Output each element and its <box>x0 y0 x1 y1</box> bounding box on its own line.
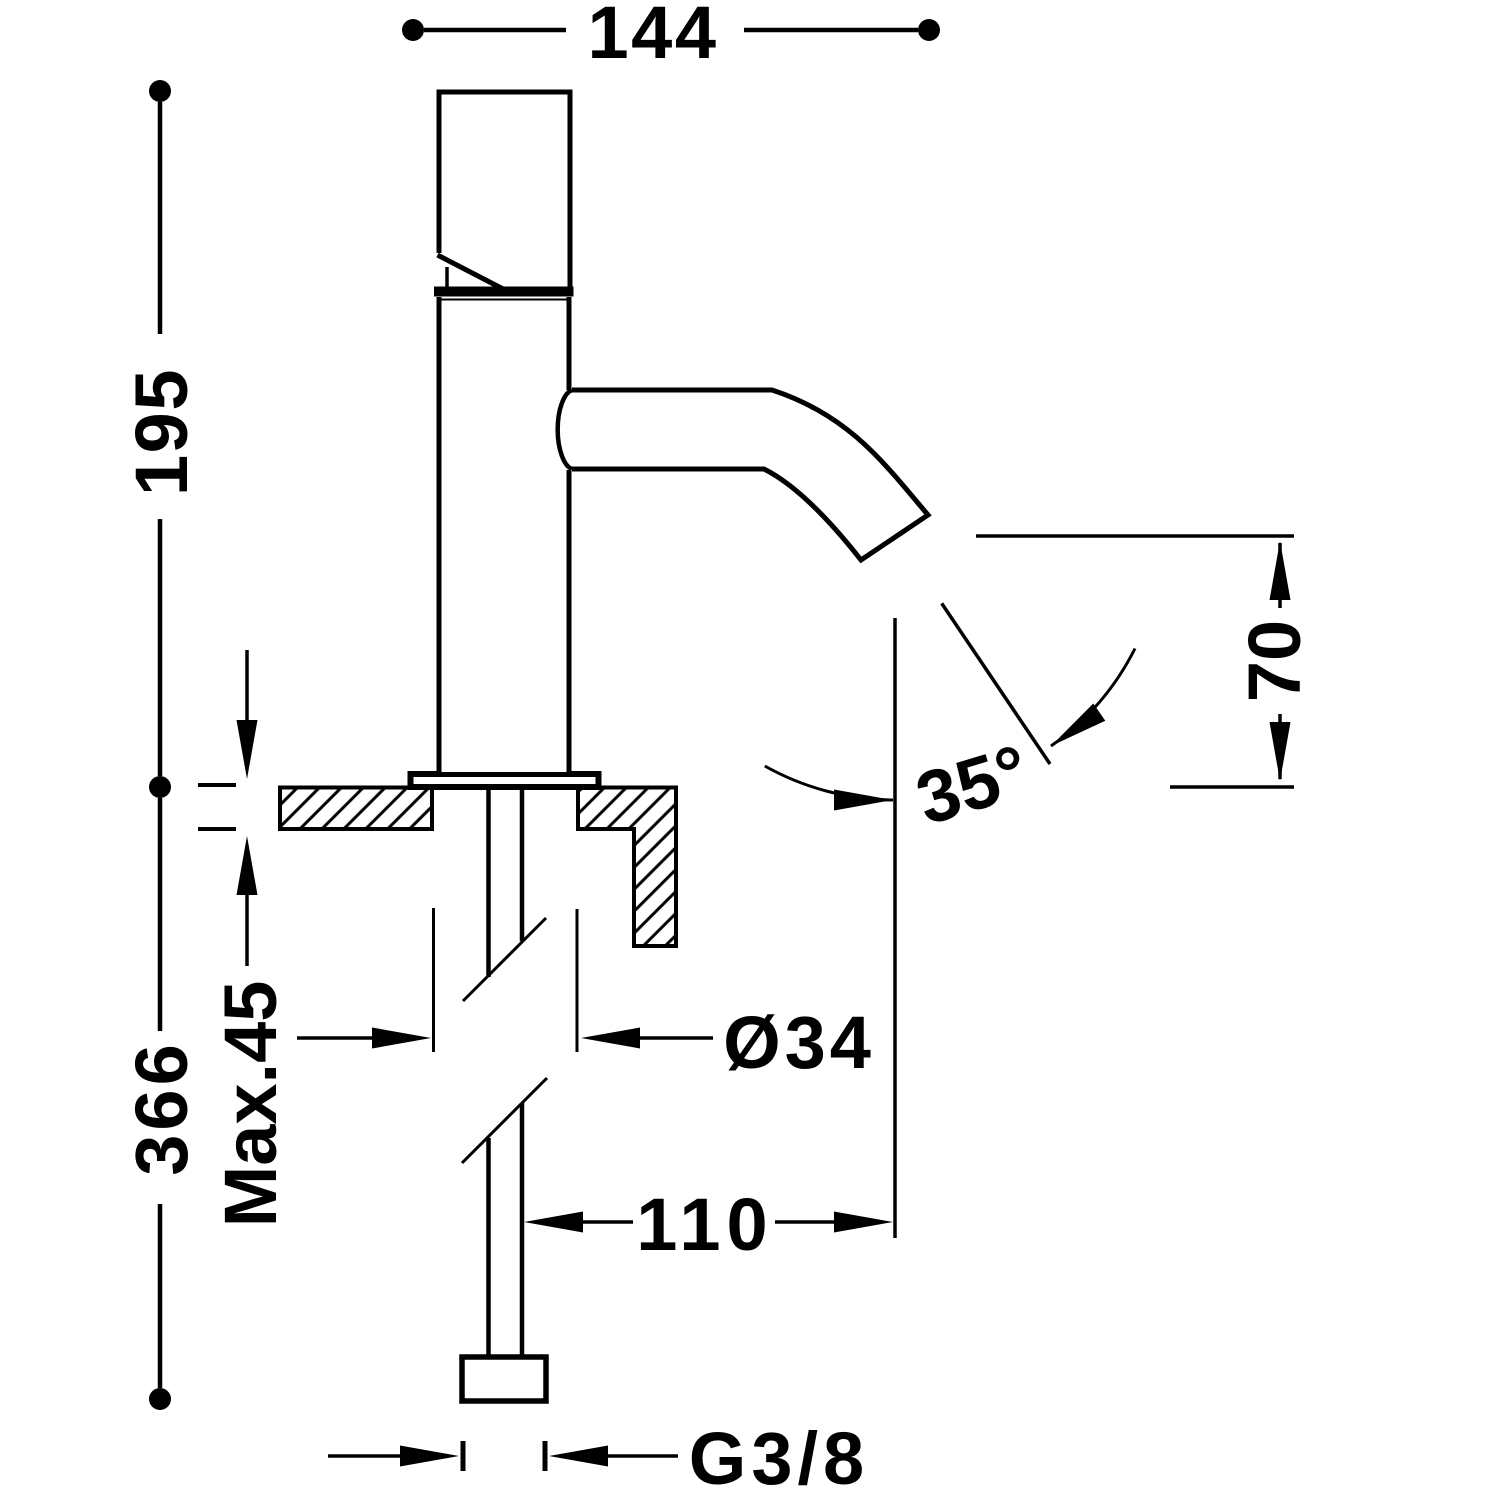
svg-text:195: 195 <box>120 368 203 496</box>
dimension G3/8 <box>328 1417 869 1500</box>
dimension Max.45 <box>198 650 292 1227</box>
faucet body <box>439 94 569 772</box>
svg-text:110: 110 <box>636 1183 773 1266</box>
angle arc left with arrow <box>765 766 893 811</box>
countertop right slab <box>578 788 676 947</box>
pipe break slash upper <box>463 918 546 1001</box>
svg-text:70: 70 <box>1233 620 1316 702</box>
svg-text:366: 366 <box>120 1040 203 1175</box>
svg-text:Ø34: Ø34 <box>723 1001 875 1084</box>
svg-text:144: 144 <box>588 0 719 74</box>
water stream vertical reference <box>893 618 897 1238</box>
mounting flange <box>411 774 599 787</box>
connection nut <box>462 1357 546 1401</box>
faucet handle <box>434 92 574 300</box>
svg-text:Max.45: Max.45 <box>209 981 292 1228</box>
outlet height reference line lower <box>1170 785 1294 789</box>
supply pipe <box>489 789 523 1357</box>
angle arc right with arrow <box>1051 649 1135 747</box>
spout <box>558 390 928 560</box>
dimension 195 <box>120 80 203 798</box>
dimension Ø34 <box>297 908 875 1084</box>
water stream 35 degree line <box>942 603 1050 764</box>
countertop left slab <box>280 788 432 830</box>
svg-text:G3/8: G3/8 <box>689 1417 869 1500</box>
dimension 110 <box>524 1183 893 1266</box>
dimension 144 <box>402 0 940 74</box>
pipe break slash lower <box>462 1078 547 1163</box>
dimension 70 <box>1233 541 1316 781</box>
outlet height reference line upper <box>976 534 1294 538</box>
dimension 366 <box>120 798 203 1410</box>
